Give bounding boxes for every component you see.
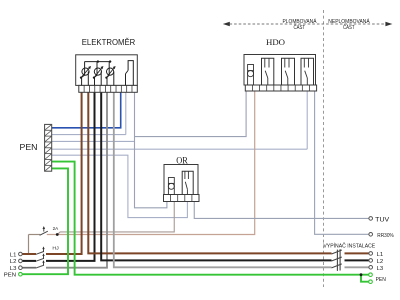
svg-text:HDO: HDO [266,38,285,47]
svg-text:VYPÍNAČ INSTALACE: VYPÍNAČ INSTALACE [323,243,375,250]
svg-text:PEN: PEN [20,142,38,152]
svg-text:TUV: TUV [375,216,390,223]
svg-text:L2: L2 [10,259,17,265]
svg-text:L3: L3 [10,266,17,272]
svg-text:L1: L1 [10,252,17,258]
svg-text:ČÁST: ČÁST [294,24,306,31]
svg-text:L1: L1 [377,252,384,258]
svg-text:L2: L2 [377,259,384,265]
svg-text:PEN: PEN [4,273,16,279]
svg-text:ČÁST: ČÁST [343,24,355,31]
svg-text:RR30%: RR30% [377,233,393,239]
svg-text:NEPLOMBOVANÁ: NEPLOMBOVANÁ [328,18,370,25]
svg-text:PLOMBOVANÁ: PLOMBOVANÁ [283,18,318,25]
svg-text:HJ: HJ [52,246,59,252]
svg-text:L3: L3 [377,266,384,272]
svg-text:OR: OR [176,156,188,166]
svg-text:PEN: PEN [376,277,386,283]
svg-text:ELEKTROMĚR: ELEKTROMĚR [82,38,136,47]
svg-text:2A: 2A [53,226,59,232]
